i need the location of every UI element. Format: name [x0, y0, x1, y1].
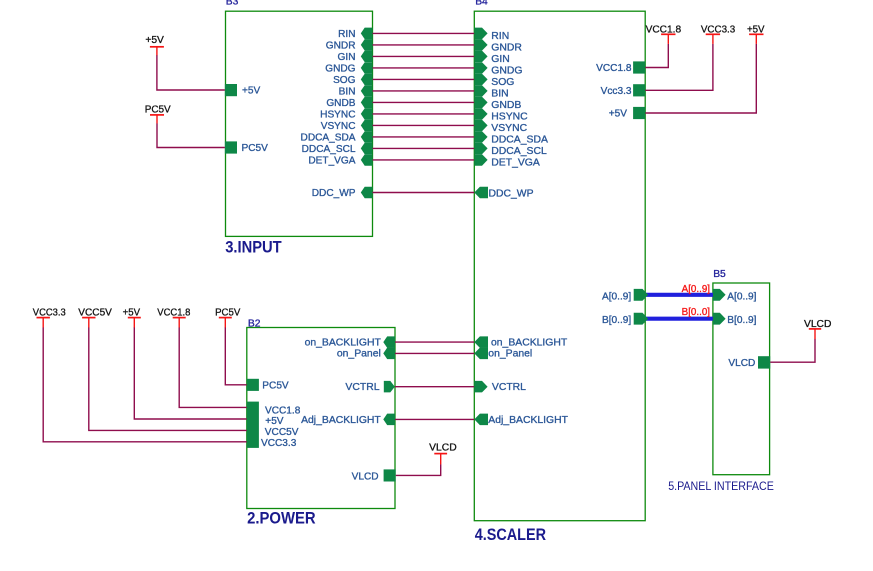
sheet entry DDCA_SDA (B4) — [474, 131, 487, 143]
sheet entry DDCA_SCL (B3) — [361, 143, 373, 155]
svg-text:VCTRL: VCTRL — [345, 382, 379, 393]
svg-text:GNDB: GNDB — [326, 98, 355, 109]
wire VCC1.8 to B4 — [645, 44, 668, 68]
svg-text:VCC1.8: VCC1.8 — [646, 24, 682, 35]
sheet entry Adj_BACKLIGHT (B4) — [474, 414, 488, 426]
svg-text:B[0..9]: B[0..9] — [602, 315, 631, 326]
svg-text:BIN: BIN — [491, 89, 508, 100]
svg-text:VCC1.8: VCC1.8 — [596, 63, 632, 74]
sheet entry B[0..9] (B4) — [634, 313, 648, 325]
wire GNDB — [373, 101, 475, 103]
sheet entry GIN (B4) — [474, 51, 487, 63]
sheet entry RIN (B3) — [361, 28, 373, 39]
svg-text:on_BACKLIGHT: on_BACKLIGHT — [305, 338, 382, 349]
svg-text:B[0..0]: B[0..0] — [682, 307, 711, 318]
wire PC5V to B3 — [157, 123, 225, 147]
svg-text:BIN: BIN — [339, 87, 356, 98]
sheet entry SOG (B3) — [361, 74, 373, 86]
wire SOG — [373, 78, 475, 80]
svg-text:+5V: +5V — [123, 308, 141, 319]
wire RIN — [373, 32, 475, 34]
svg-text:GNDG: GNDG — [491, 66, 522, 77]
svg-text:4.SCALER: 4.SCALER — [475, 526, 546, 544]
svg-text:A[0..9]: A[0..9] — [602, 291, 631, 302]
svg-text:DDCA_SDA: DDCA_SDA — [491, 135, 548, 146]
svg-text:A[0..9]: A[0..9] — [727, 291, 756, 302]
svg-text:DDCA_SDA: DDCA_SDA — [301, 133, 356, 144]
svg-text:B3: B3 — [226, 0, 239, 8]
power bar VCC1.8 above B2 — [173, 317, 186, 319]
svg-text:DET_VGA: DET_VGA — [491, 158, 540, 169]
power bar +5V above B2 — [128, 317, 141, 319]
svg-text:GNDR: GNDR — [491, 43, 522, 54]
sheet entry Adj_BACKLIGHT (B2) — [383, 414, 395, 426]
svg-text:VLCD: VLCD — [728, 358, 755, 369]
wire DDCA_SCL — [373, 147, 475, 149]
svg-text:GNDR: GNDR — [326, 41, 356, 52]
svg-text:HSYNC: HSYNC — [491, 112, 528, 123]
power bar VCC5V above B2 — [82, 317, 95, 319]
svg-text:VCTRL: VCTRL — [492, 382, 526, 393]
sheet entry DET_VGA (B3) — [361, 154, 373, 166]
sheet entry DET_VGA (B4) — [474, 154, 487, 166]
wire VLCD from B2 — [396, 464, 441, 475]
sheet symbol B4 (4.SCALER block) — [474, 11, 645, 521]
svg-text:B[0..9]: B[0..9] — [727, 315, 756, 326]
svg-text:B4: B4 — [475, 0, 488, 8]
sheet entry VCTRL (B4) — [474, 381, 487, 393]
port +5V (B3) — [225, 84, 237, 96]
sheet entry GNDB (B3) — [361, 97, 373, 109]
sheet entry DDC_WP (B3) — [361, 187, 373, 198]
svg-text:on_BACKLIGHT: on_BACKLIGHT — [491, 338, 568, 349]
svg-text:on_Panel: on_Panel — [488, 349, 532, 360]
svg-text:Adj_BACKLIGHT: Adj_BACKLIGHT — [301, 415, 381, 426]
svg-text:+5V: +5V — [265, 416, 284, 427]
wire +5V to B3 — [157, 55, 225, 90]
svg-text:DDC_WP: DDC_WP — [312, 188, 356, 199]
port Vcc3.3 (B4) — [633, 84, 645, 96]
svg-text:DDCA_SCL: DDCA_SCL — [491, 146, 547, 157]
sheet entry SOG (B4) — [474, 74, 487, 86]
port +5V (B4) — [633, 107, 645, 119]
wire DET_VGA — [373, 159, 475, 161]
sheet entry A[0..9] (B5) — [713, 289, 726, 301]
svg-text:GNDB: GNDB — [491, 100, 521, 111]
sheet symbol B3 (3.INPUT block) — [226, 11, 373, 236]
svg-text:+5V: +5V — [145, 35, 164, 46]
wire Adj_BACKLIGHT — [395, 418, 474, 420]
sheet entry VCTRL (B2) — [384, 381, 395, 393]
sheet entry on_BACKLIGHT (B2) — [383, 336, 395, 348]
sheet entry RIN (B4) — [474, 28, 487, 39]
svg-text:A[0..9]: A[0..9] — [682, 284, 711, 295]
svg-text:B2: B2 — [248, 318, 261, 329]
svg-text:PC5V: PC5V — [262, 380, 289, 391]
wire on_BACKLIGHT — [395, 341, 474, 343]
power bar PC5V above B2 — [219, 317, 232, 319]
svg-text:Adj_BACKLIGHT: Adj_BACKLIGHT — [488, 415, 568, 426]
svg-text:VCC1.8: VCC1.8 — [265, 406, 301, 417]
svg-text:VCC5V: VCC5V — [78, 308, 112, 319]
sheet entry GNDR (B3) — [361, 39, 373, 51]
sheet entry GIN (B3) — [361, 51, 373, 63]
svg-text:RIN: RIN — [338, 29, 355, 40]
port VLCD (B2) — [384, 469, 396, 481]
wire VCTRL — [395, 386, 474, 388]
sheet entry GNDB (B4) — [474, 97, 487, 109]
svg-text:RIN: RIN — [491, 31, 509, 42]
wire +5V to B4 — [645, 44, 756, 113]
svg-text:+5V: +5V — [242, 86, 261, 97]
wire DDCA_SDA — [373, 136, 475, 138]
svg-text:PC5V: PC5V — [242, 143, 269, 154]
sheet symbol B5 (5.PANEL INTERFACE block) — [713, 283, 770, 475]
sheet entry DDCA_SCL (B4) — [474, 143, 487, 155]
svg-text:on_Panel: on_Panel — [337, 349, 381, 360]
wire VSYNC — [373, 124, 475, 126]
svg-text:SOG: SOG — [491, 77, 514, 88]
svg-text:Vcc3.3: Vcc3.3 — [601, 86, 632, 97]
port PC5V (B2) — [247, 379, 259, 391]
sheet entry A[0..9] (B4) — [634, 289, 648, 301]
power bar VLCD near B2 — [434, 453, 447, 455]
wire VCC3.3 to B2 — [43, 327, 247, 442]
sheet entry GNDR (B4) — [474, 39, 487, 51]
sheet entry DDC_WP (B4) — [474, 187, 488, 198]
svg-text:PC5V: PC5V — [145, 105, 171, 116]
svg-text:PC5V: PC5V — [215, 308, 240, 319]
power bar +5V top-left — [150, 46, 164, 48]
svg-text:VLCD: VLCD — [804, 319, 831, 330]
svg-text:B5: B5 — [713, 269, 726, 280]
wire DDC_WP — [373, 192, 475, 194]
svg-text:VCC3.3: VCC3.3 — [701, 24, 736, 35]
wire on_Panel — [395, 352, 474, 354]
sheet entry BIN (B3) — [361, 85, 373, 97]
sheet entry on_Panel (B2) — [383, 348, 395, 360]
svg-text:VSYNC: VSYNC — [321, 121, 356, 132]
sheet entry B[0..9] (B5) — [713, 313, 726, 325]
sheet entry on_Panel (B4) — [474, 348, 488, 360]
svg-text:DDC_WP: DDC_WP — [489, 189, 534, 200]
svg-text:VLCD: VLCD — [352, 471, 379, 482]
svg-text:GNDG: GNDG — [325, 64, 355, 75]
sheet entry DDCA_SDA (B3) — [361, 131, 373, 143]
svg-text:GIN: GIN — [491, 54, 509, 65]
wire VCC5V to B2 — [89, 327, 247, 430]
power bar +5V above B4 — [749, 33, 763, 35]
bus A[0..9] — [644, 293, 714, 297]
svg-text:HSYNC: HSYNC — [320, 110, 355, 121]
port PC5V (B3) — [225, 141, 237, 153]
power bar VLCD near B5 — [809, 328, 821, 330]
wire VCC1.8 to B2 — [179, 327, 247, 407]
sheet entry VSYNC (B4) — [474, 120, 487, 132]
sheet entry HSYNC (B4) — [474, 108, 487, 120]
sheet entry VSYNC (B3) — [361, 120, 373, 132]
wire PC5V to B2 — [225, 327, 247, 385]
sheet entry HSYNC (B3) — [361, 108, 373, 120]
port stack VCC1.8/+5V/VCC5V/VCC3.3 (B2) — [247, 402, 259, 448]
bus B[0..9] — [644, 317, 714, 321]
svg-text:+5V: +5V — [747, 24, 765, 35]
power bar VCC3.3 above B2 — [37, 317, 50, 319]
svg-text:VSYNC: VSYNC — [491, 123, 527, 134]
svg-text:5.PANEL INTERFACE: 5.PANEL INTERFACE — [668, 481, 774, 493]
svg-text:VCC1.8: VCC1.8 — [157, 308, 190, 319]
svg-text:3.INPUT: 3.INPUT — [225, 238, 282, 256]
sheet entry GNDG (B4) — [474, 62, 487, 73]
wire GNDG — [373, 67, 475, 69]
svg-text:GIN: GIN — [338, 52, 356, 63]
svg-text:VCC3.3: VCC3.3 — [261, 438, 297, 449]
svg-text:DDCA_SCL: DDCA_SCL — [302, 144, 356, 155]
wire GIN — [373, 55, 475, 57]
sheet entry BIN (B4) — [474, 85, 487, 97]
power bar VCC1.8 above B4 — [661, 33, 675, 35]
svg-text:VCC3.3: VCC3.3 — [33, 308, 66, 319]
sheet entry on_BACKLIGHT (B4) — [474, 336, 488, 348]
port VLCD (B5) — [758, 356, 770, 368]
wire HSYNC — [373, 113, 475, 115]
wire +5V to B2 — [134, 327, 247, 419]
svg-text:VCC5V: VCC5V — [265, 427, 299, 438]
sheet symbol B2 (2.POWER block) — [247, 328, 395, 509]
svg-text:DET_VGA: DET_VGA — [308, 156, 355, 167]
wire VCC3.3 to B4 — [645, 44, 713, 90]
wire GNDR — [373, 44, 475, 46]
wire VLCD from B5 — [770, 339, 815, 362]
svg-text:+5V: +5V — [609, 109, 628, 120]
power bar VCC3.3 above B4 — [706, 33, 720, 35]
power bar PC5V left — [150, 114, 164, 116]
svg-text:2.POWER: 2.POWER — [247, 510, 316, 528]
port VCC1.8 (B4) — [633, 61, 645, 73]
wire BIN — [373, 90, 475, 92]
sheet entry GNDG (B3) — [361, 62, 373, 73]
svg-text:SOG: SOG — [333, 75, 356, 86]
svg-text:VLCD: VLCD — [429, 443, 457, 454]
